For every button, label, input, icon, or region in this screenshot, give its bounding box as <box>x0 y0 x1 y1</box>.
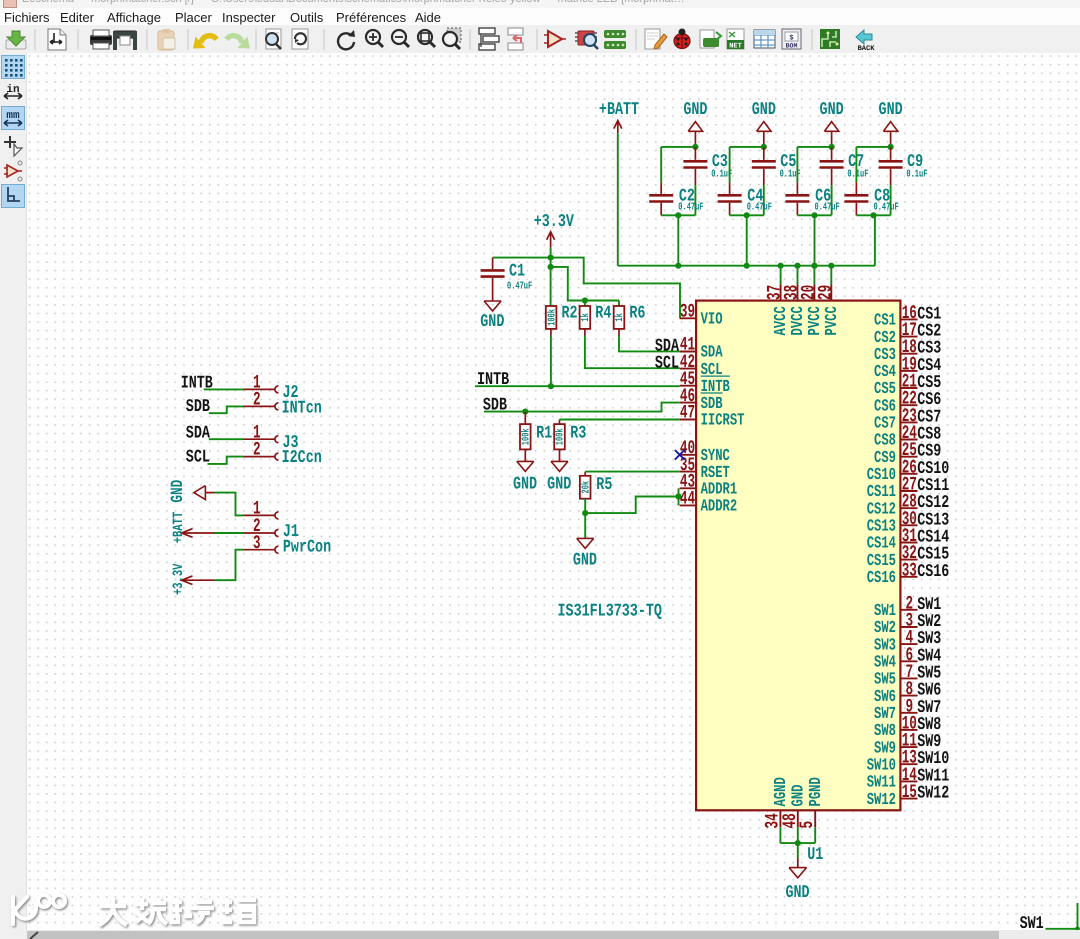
wire top of pair C4/C5 <box>730 147 764 182</box>
svg-text:IS31FL3733-TQ: IS31FL3733-TQ <box>558 602 662 622</box>
label CS15 <box>917 545 949 565</box>
junction bottom of pair C8/C9 <box>870 212 876 218</box>
ground symbol below R3 <box>547 449 571 495</box>
svg-text:100k: 100k <box>545 309 559 326</box>
pin 37 AVCC (top) <box>763 266 791 336</box>
wire bus up to C8/C9 pair <box>874 215 876 265</box>
connector J1 PwrCon <box>244 497 332 558</box>
pin 15 SW12 (right) <box>867 781 918 810</box>
label CS1 <box>917 305 941 325</box>
svg-text:+3.3V: +3.3V <box>534 213 575 233</box>
junction SW1 corner <box>1075 926 1080 931</box>
svg-text:PwrCon: PwrCon <box>283 538 331 558</box>
pin 14 SW11 (right) <box>867 763 918 792</box>
junction bus at x=746.7 <box>744 263 750 269</box>
svg-text:47: 47 <box>680 401 695 424</box>
svg-text:PVCC: PVCC <box>822 306 841 335</box>
junction below GND pin 48 <box>795 840 801 846</box>
label SCL (at pin 42) <box>655 354 679 374</box>
svg-text:SDA: SDA <box>186 424 211 444</box>
svg-text:SDB: SDB <box>483 396 507 416</box>
svg-text:in: in <box>6 84 19 96</box>
pin 20 PVCC (top) <box>797 266 825 336</box>
reference U1 <box>807 846 823 866</box>
wire pair C6/C7 down to bus <box>814 215 816 265</box>
wire pair C4/C5 down to bus <box>746 215 748 265</box>
pin 47 IICRST (left) <box>680 401 745 430</box>
svg-text:CS16: CS16 <box>867 568 896 587</box>
label SW8 <box>917 716 941 736</box>
wire R6 to SDA pin 41 <box>619 329 680 352</box>
junction bus at x=678.3 <box>675 263 681 269</box>
pin 6 SW4 (right) <box>874 643 917 672</box>
wire GND to J1 pin 1 <box>215 493 244 516</box>
wire GND down <box>797 827 799 843</box>
pin 22 CS6 (right) <box>874 387 917 416</box>
capacitor C5 0.1uF <box>752 147 801 185</box>
svg-text:SW12: SW12 <box>867 790 896 809</box>
svg-text:NET: NET <box>729 43 742 51</box>
svg-text:2: 2 <box>253 388 261 411</box>
ground symbol below R1 <box>513 449 537 495</box>
svg-text:INTB: INTB <box>181 374 213 394</box>
label CS4 <box>917 357 941 377</box>
power symbol +3.3V (left of J1) <box>171 563 214 595</box>
svg-text:INTB: INTB <box>477 371 509 391</box>
svg-text:GND: GND <box>547 475 571 495</box>
svg-text:44: 44 <box>680 487 696 510</box>
wire bottom of pair C8/C9 <box>856 214 890 216</box>
junction R2 bottom on INTB wire <box>548 383 554 389</box>
value IS31FL3733-TQ <box>558 602 662 622</box>
svg-text:R6: R6 <box>629 304 645 324</box>
pin 21 CS5 (right) <box>874 370 917 399</box>
wire PGND down <box>814 827 816 843</box>
svg-text:I2Ccn: I2Ccn <box>282 449 322 469</box>
junction +3.3V / C1 <box>548 255 554 261</box>
junction bottom of pair C2/C3 <box>675 212 681 218</box>
svg-text:1k: 1k <box>613 313 627 321</box>
svg-text:$: $ <box>789 34 793 43</box>
pin 41 SDA (left) <box>680 333 724 362</box>
svg-text:0.47uF: 0.47uF <box>747 202 772 214</box>
label SW4 <box>917 647 941 667</box>
wire bottom of pair C2/C3 <box>661 214 695 216</box>
label CS16 <box>917 563 949 583</box>
wire +BATT bus horizontal <box>618 265 875 267</box>
ground symbol below U1 <box>785 858 809 904</box>
junction GND/C9 top <box>888 144 894 150</box>
label CS12 <box>917 494 949 514</box>
pin 27 CS11 (right) <box>867 473 918 502</box>
label CS7 <box>917 408 941 428</box>
pin 44 ADDR2 (left) <box>680 487 737 516</box>
svg-text:0.1uF: 0.1uF <box>906 169 927 181</box>
junction GND/C7 top <box>829 144 835 150</box>
svg-text:0.47uF: 0.47uF <box>874 202 899 214</box>
junction R4 top <box>582 297 588 303</box>
junction +3.3V branch to R4/R6 <box>548 264 554 270</box>
power symbol GND above C5 <box>752 101 776 147</box>
svg-text:GND: GND <box>480 313 504 333</box>
wire bottom of pair C4/C5 <box>730 214 764 216</box>
junction bottom of pair C6/C7 <box>811 212 817 218</box>
wire top of pair C2/C3 <box>661 147 695 182</box>
connector J3 I2Ccn <box>244 421 322 469</box>
svg-text:BOM: BOM <box>786 43 798 50</box>
svg-text:GND: GND <box>752 101 776 121</box>
svg-text:R1: R1 <box>536 424 552 444</box>
label SDA (at J3) <box>186 424 211 444</box>
svg-text:SW12: SW12 <box>917 784 949 804</box>
pin 33 CS16 (right) <box>867 559 918 588</box>
svg-text:0.47uF: 0.47uF <box>815 202 840 214</box>
ground symbol below R5 <box>573 513 597 571</box>
wire +3.3V to VIO pin 39 <box>551 258 680 319</box>
wire SDB to J2 pin 2 <box>209 406 244 413</box>
capacitor C1 <box>481 258 533 301</box>
pin 11 SW9 (right) <box>874 729 917 758</box>
junction ADDR wire <box>675 493 681 499</box>
label SW6 <box>917 681 941 701</box>
label CS13 <box>917 511 949 531</box>
pin 18 CS3 (right) <box>874 336 917 365</box>
junction bottom of pair C4/C5 <box>744 212 750 218</box>
label CS11 <box>917 477 949 497</box>
label CS10 <box>917 460 949 480</box>
svg-text:INTcn: INTcn <box>282 399 322 419</box>
label CS14 <box>917 528 949 548</box>
wire ADDR2 to R5 bottom <box>585 497 678 514</box>
svg-text:29: 29 <box>814 285 837 300</box>
junction GND/C3 top <box>692 144 698 150</box>
svg-text:R5: R5 <box>596 476 612 496</box>
pin 19 CS4 (right) <box>874 353 917 382</box>
wire R4 to SCL pin 42 <box>585 329 680 368</box>
label SDB (at J2) <box>186 398 210 418</box>
svg-text:0.47uF: 0.47uF <box>678 202 703 214</box>
junction bus at DVCC 38 <box>794 263 800 269</box>
resistor R5 20k <box>579 472 612 499</box>
svg-text:ADDR2: ADDR2 <box>701 497 738 516</box>
svg-text:SCL: SCL <box>655 354 679 374</box>
power symbol +3.3V (top) <box>534 213 575 248</box>
wire to C1 <box>493 257 551 259</box>
junction R5 bottom <box>582 510 588 516</box>
pin 29 PVCC (top) <box>814 266 842 336</box>
wire RSET pin 35 <box>585 471 680 473</box>
wire C7 bottom <box>831 185 833 215</box>
wire +BATT vertical <box>617 133 619 265</box>
junction bus at AVCC 37 <box>778 263 784 269</box>
capacitor C8 0.47uF <box>844 182 898 215</box>
pin 7 SW5 (right) <box>874 660 917 689</box>
svg-text:SCL: SCL <box>186 448 210 468</box>
label SW12 <box>917 784 949 804</box>
wire +3.3V to J1 pin 3 <box>215 550 244 581</box>
pin 23 CS7 (right) <box>874 404 917 433</box>
svg-text:R3: R3 <box>570 424 586 444</box>
resistor R3 100k <box>554 420 587 450</box>
svg-text:15: 15 <box>902 781 917 804</box>
pin 42 SCL (left) <box>680 350 723 379</box>
svg-text:GND: GND <box>879 101 903 121</box>
pin 30 CS13 (right) <box>867 507 918 536</box>
power symbol +BATT (top) <box>599 101 639 134</box>
svg-text:SDB: SDB <box>186 398 210 418</box>
svg-text:2: 2 <box>253 438 261 461</box>
power symbol GND above C7 <box>820 101 844 147</box>
label CS6 <box>917 391 941 411</box>
svg-text:U1: U1 <box>807 846 823 866</box>
wire SDB to pin 46 <box>484 403 680 412</box>
wire pair C2/C3 down to bus <box>677 215 679 265</box>
pin 28 CS12 (right) <box>867 490 918 519</box>
capacitor C7 0.1uF <box>820 147 869 185</box>
pin 39 VIO (left) <box>680 300 723 329</box>
label SCL (at J3) <box>186 448 210 468</box>
pin 31 CS14 (right) <box>867 525 918 554</box>
junction bus at PVCC 20 <box>811 263 817 269</box>
wire R5 bottom <box>584 499 586 513</box>
pin 3 SW2 (right) <box>874 609 917 638</box>
label CS2 <box>917 322 941 342</box>
no-connect flag on SYNC pin 40 <box>675 450 685 460</box>
wire to ground symbol U1 <box>797 843 799 858</box>
pin 46 SDB (left) <box>680 384 724 413</box>
wire C3 bottom <box>694 185 696 215</box>
label SW10 <box>917 750 949 770</box>
watermark <box>0 880 300 939</box>
svg-text:+3.3V: +3.3V <box>171 563 187 595</box>
wire top of pair C8/C9 <box>856 147 890 182</box>
label SW9 <box>917 733 941 753</box>
junction bus at PVCC 29 <box>828 263 834 269</box>
svg-text:3: 3 <box>253 531 261 554</box>
label INTB (mid) <box>477 371 509 391</box>
pin 45 INTB (left) <box>680 367 731 396</box>
pin 16 CS1 (right) <box>874 301 917 330</box>
wire +3.3V branch to R4/R6 tops <box>551 267 619 301</box>
power symbol GND (left of J1) <box>167 479 214 502</box>
svg-text:IICRST: IICRST <box>701 411 745 430</box>
wire R2 to INTB net <box>550 329 552 386</box>
pin 4 SW3 (right) <box>874 626 917 655</box>
wire C9 bottom <box>890 185 892 215</box>
power symbol GND above C9 <box>879 101 903 147</box>
menu bar <box>0 8 1080 25</box>
pin 26 CS10 (right) <box>867 456 918 485</box>
pin 43 ADDR1 (left) <box>680 470 737 499</box>
wire +3.3V vertical to R2 <box>550 247 552 306</box>
label CS5 <box>917 374 941 394</box>
label CS3 <box>917 339 941 359</box>
label SW3 <box>917 630 941 650</box>
pin 13 SW10 (right) <box>867 746 918 775</box>
wire AGND down <box>779 827 781 843</box>
label INTB (at J2) <box>181 374 213 394</box>
capacitor C3 0.1uF <box>683 147 732 185</box>
svg-text:C1: C1 <box>509 262 525 282</box>
label CS8 <box>917 425 941 445</box>
svg-text:GND: GND <box>683 101 707 121</box>
title bar <box>0 0 1080 8</box>
junction GND/C5 top <box>761 144 767 150</box>
svg-text:VIO: VIO <box>701 310 723 329</box>
wire SW1 bottom right <box>1046 903 1078 929</box>
resistor R4 1k <box>579 301 611 329</box>
IC U1 IS31FL3733-TQ body <box>696 301 900 811</box>
svg-text:20k: 20k <box>579 481 593 494</box>
svg-text:PGND: PGND <box>806 777 825 806</box>
svg-text:100k: 100k <box>554 428 568 445</box>
pin 32 CS15 (right) <box>867 542 918 571</box>
ground symbol below C1 <box>480 301 504 333</box>
svg-text:GND: GND <box>167 479 187 502</box>
svg-text:BACK: BACK <box>858 45 876 53</box>
pin 2 SW1 (right) <box>874 592 917 621</box>
pin 10 SW8 (right) <box>874 712 917 741</box>
wire INTB to J2 pin 1 <box>204 388 244 390</box>
svg-text:GND: GND <box>513 475 537 495</box>
svg-text:R2: R2 <box>562 304 578 324</box>
label SW1 <box>917 596 941 616</box>
wire R3 top to IICRST pin 47 <box>560 419 680 421</box>
wire top of pair C6/C7 <box>797 147 831 182</box>
junction bus at x=814.5 <box>811 263 817 269</box>
svg-text:100k: 100k <box>520 428 534 445</box>
svg-text:R4: R4 <box>595 304 611 324</box>
capacitor C9 0.1uF <box>879 147 928 185</box>
resistor R6 1k <box>613 301 645 329</box>
pin 40 SYNC (left) <box>680 437 730 466</box>
wire C5 bottom <box>763 185 765 215</box>
svg-text:1k: 1k <box>579 313 593 321</box>
pin 5 PGND (bottom) <box>796 777 826 828</box>
svg-text:GND: GND <box>573 551 597 571</box>
resistor R1 100k <box>520 412 553 450</box>
svg-text:CS16: CS16 <box>917 563 949 583</box>
label SDA (at pin 41) <box>655 337 680 357</box>
pin 38 DVCC (top) <box>780 266 808 336</box>
toolbar <box>0 25 1080 53</box>
pin 24 CS8 (right) <box>874 422 917 451</box>
power symbol +BATT (left of J1) <box>171 512 214 544</box>
power symbol GND above C3 <box>683 101 707 147</box>
pin 9 SW7 (right) <box>874 695 917 724</box>
pin 48 GND (bottom) <box>778 785 808 829</box>
wire SCL to J3 pin 2 <box>208 457 244 464</box>
pin 34 AGND (bottom) <box>761 777 791 828</box>
svg-text:39: 39 <box>680 300 695 323</box>
label CS9 <box>917 442 941 462</box>
bottom scrollbar <box>26 930 1080 939</box>
capacitor C4 0.47uF <box>718 182 772 215</box>
connector J2 INTcn <box>244 371 322 419</box>
svg-text:GND: GND <box>820 101 844 121</box>
wire SDA to J3 pin 1 <box>209 438 244 440</box>
label SW5 <box>917 664 941 684</box>
capacitor C6 0.47uF <box>785 182 839 215</box>
svg-text:+BATT: +BATT <box>171 512 187 544</box>
junction R1 top on SDB wire <box>522 409 528 415</box>
label SW1 (bottom right) <box>1020 915 1044 935</box>
wire bottom of pair C6/C7 <box>797 214 831 216</box>
label SDB (mid) <box>483 396 507 416</box>
svg-text:0.47uF: 0.47uF <box>507 281 532 293</box>
wire INTB to pin 45 <box>475 385 680 387</box>
svg-text:GND: GND <box>785 884 809 904</box>
pin 25 CS9 (right) <box>874 439 917 468</box>
capacitor C2 0.47uF <box>649 182 703 215</box>
svg-text:+BATT: +BATT <box>599 101 639 121</box>
svg-text:33: 33 <box>902 559 917 582</box>
label SW7 <box>917 699 941 719</box>
label SW11 <box>917 767 949 787</box>
pin 17 CS2 (right) <box>874 319 917 348</box>
pin 8 SW6 (right) <box>874 678 917 707</box>
wire ADDR1 to ADDR2 <box>678 488 680 505</box>
svg-text:0.1uF: 0.1uF <box>847 169 868 181</box>
wire joining AGND/GND/PGND <box>780 842 815 844</box>
resistor R2 100k <box>545 304 577 329</box>
pin 35 RSET (left) <box>680 453 730 482</box>
left toolbar <box>0 53 27 939</box>
wire +BATT to J1 pin 2 <box>215 532 244 534</box>
label SW2 <box>917 613 941 633</box>
